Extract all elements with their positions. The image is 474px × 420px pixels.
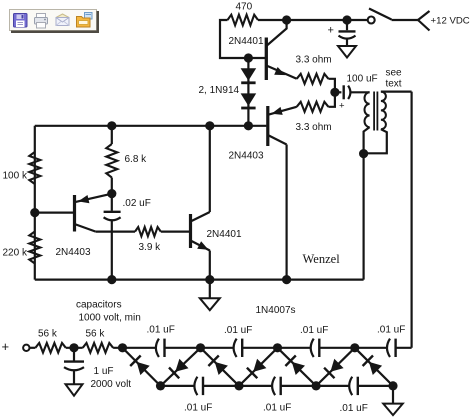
svg-text:470: 470 bbox=[236, 2, 253, 13]
capacitor C7 .01uF bbox=[387, 339, 390, 357]
diode D9 1N4007 bbox=[355, 348, 393, 386]
resistor R7 3.9k bbox=[135, 227, 161, 236]
wire: T1 secondary bottom return bbox=[364, 129, 387, 153]
transistor Q3 2N4403 (left) bbox=[73, 195, 76, 232]
transformer T1 core bbox=[373, 92, 375, 131]
svg-text:2, 1N914: 2, 1N914 bbox=[199, 85, 240, 96]
wire: Q4 collector to bias rail bbox=[209, 126, 211, 212]
svg-text:.01 uF: .01 uF bbox=[340, 403, 368, 414]
svg-text:capacitors: capacitors bbox=[76, 300, 122, 311]
wire: bias rail bbox=[35, 125, 267, 127]
wire: left branch rail bbox=[34, 126, 36, 280]
wire: R3 to C2 node bbox=[328, 92, 335, 107]
capacitor C4 .01uF bbox=[156, 339, 159, 357]
wire: diode string D1-D2 bbox=[247, 58, 249, 126]
capacitor C3 .02uF bbox=[111, 194, 113, 211]
svg-text:text: text bbox=[385, 78, 401, 89]
junction: 6.8k top bbox=[107, 121, 116, 130]
wire: multiplier top rail bbox=[113, 347, 412, 349]
junction: bottom rail node 3 bbox=[312, 381, 321, 390]
junction: Q3 base tap bbox=[30, 208, 39, 217]
svg-text:3.3 ohm: 3.3 ohm bbox=[296, 55, 332, 66]
diode D7 1N4007 bbox=[278, 348, 317, 386]
wire: R1 left lead down to Q1 base node bbox=[220, 20, 265, 58]
transistor Q1 2N4401 (oscillator top) bbox=[265, 38, 268, 81]
resistor R2 3.3 ohm (top) bbox=[297, 74, 329, 84]
wire: R8 to R9 bbox=[66, 347, 83, 349]
svg-text:100 k: 100 k bbox=[3, 171, 28, 182]
connector: +12 VDC input bbox=[418, 11, 430, 31]
junction: Q2 collector to common bbox=[282, 275, 291, 284]
svg-text:2000 volt: 2000 volt bbox=[91, 379, 132, 390]
svg-text:6.8 k: 6.8 k bbox=[125, 154, 148, 165]
junction: 1uF tap bbox=[69, 343, 78, 352]
mail button (envelope icon) bbox=[56, 14, 69, 26]
svg-text:3.9 k: 3.9 k bbox=[139, 242, 162, 253]
junction: T1 common bbox=[359, 149, 368, 158]
svg-text:3.3 ohm: 3.3 ohm bbox=[296, 122, 332, 133]
wire: common rail bbox=[35, 279, 364, 281]
wire: switch to +12V connector bbox=[392, 19, 419, 21]
diode D1 1N914 bbox=[241, 68, 257, 81]
svg-text:2N4403: 2N4403 bbox=[229, 151, 264, 162]
capacitor C5 .01uF bbox=[234, 339, 237, 357]
capacitor C10 .01uF bbox=[349, 377, 352, 395]
svg-text:+: + bbox=[339, 101, 345, 112]
svg-text:.01 uF: .01 uF bbox=[377, 325, 405, 336]
diode D6 1N4007 bbox=[239, 348, 278, 386]
transformer T1 secondary winding bbox=[381, 92, 386, 130]
resistor R1 470 bbox=[228, 15, 259, 26]
switch S1 terminal bbox=[368, 17, 375, 24]
wire: multiplier bottom rail bbox=[161, 385, 394, 387]
diode D8 1N4007 bbox=[316, 348, 355, 386]
wire: HV rail drop bbox=[411, 92, 413, 348]
resistor R5 6.8k bbox=[106, 144, 117, 178]
svg-text:56 k: 56 k bbox=[86, 329, 106, 340]
junction: C3 to common bbox=[107, 275, 116, 284]
resistor R4 100k bbox=[29, 152, 40, 184]
toolbar bbox=[10, 10, 100, 34]
svg-text:100 uF: 100 uF bbox=[347, 74, 378, 85]
wire: T1 secondary top to HV rail bbox=[381, 90, 412, 92]
ground: main common bbox=[209, 280, 211, 298]
junction: diode string bottom bbox=[244, 121, 253, 130]
ground: C12 bbox=[66, 384, 83, 396]
transistor Q4 2N4401 (bottom) bbox=[189, 214, 192, 248]
wire: Q3 collector to R7 bbox=[96, 231, 135, 233]
resistor R6 220k bbox=[29, 232, 40, 264]
resistor R8 56k bbox=[35, 343, 65, 353]
transistor Q2 2N4403 (driver) bbox=[266, 106, 269, 146]
svg-text:220 k: 220 k bbox=[3, 248, 28, 259]
print button (printer icon) bbox=[35, 14, 48, 29]
capacitor C9 .01uF bbox=[272, 377, 275, 395]
junction: Q4 collector tap bbox=[205, 121, 214, 130]
junction: top rail node 2 bbox=[196, 343, 205, 352]
wire: T1 primary bottom to common bbox=[364, 127, 370, 154]
capacitor C6 .01uF bbox=[311, 339, 314, 357]
wire: R5 leads bbox=[111, 126, 113, 194]
diode D2 1N914 bbox=[241, 93, 257, 106]
capacitor C12 1uF bbox=[73, 348, 75, 361]
svg-text:.01 uF: .01 uF bbox=[224, 325, 252, 336]
wire: top rail to switch bbox=[287, 19, 368, 21]
junction: top rail node 3 bbox=[273, 343, 282, 352]
svg-text:+: + bbox=[2, 339, 10, 354]
resistor R9 56k bbox=[83, 343, 113, 353]
junction: Q1 base bbox=[244, 53, 253, 62]
svg-text:2N4401: 2N4401 bbox=[229, 36, 264, 47]
junction: filter cap tap bbox=[342, 15, 351, 24]
svg-text:Wenzel: Wenzel bbox=[303, 252, 341, 266]
svg-text:1N4007s: 1N4007s bbox=[256, 305, 296, 316]
svg-text:+12 VDC: +12 VDC bbox=[431, 16, 470, 27]
switch S1 blade bbox=[369, 9, 392, 20]
svg-text:+: + bbox=[328, 25, 334, 37]
junction: C2 node bbox=[330, 88, 339, 97]
svg-text:.02 uF: .02 uF bbox=[123, 198, 151, 209]
svg-text:1000 volt, min: 1000 volt, min bbox=[79, 313, 141, 324]
svg-text:.01 uF: .01 uF bbox=[147, 325, 175, 336]
capacitor C8 .01uF bbox=[194, 377, 197, 395]
svg-text:56 k: 56 k bbox=[38, 329, 58, 340]
ground: multiplier output bbox=[392, 386, 394, 403]
diode D5 1N4007 bbox=[201, 348, 240, 386]
wire: R2 to C2 node bbox=[328, 79, 335, 93]
wire: R1 right lead to collector node bbox=[258, 19, 287, 21]
svg-text:.01 uF: .01 uF bbox=[300, 325, 328, 336]
transformer T1 primary winding bbox=[364, 92, 369, 127]
junction: top rail node 4 bbox=[350, 343, 359, 352]
wire: R7 to Q4 base bbox=[161, 231, 189, 233]
capacitor C2 100uF bbox=[335, 91, 342, 93]
wire: T1 common drop bbox=[363, 154, 365, 280]
wire: terminal to R8 bbox=[30, 347, 36, 349]
ground: C1 bbox=[338, 46, 356, 58]
junction: bottom rail node 2 bbox=[234, 381, 243, 390]
junction: Q3 emitter node bbox=[107, 189, 116, 198]
svg-text:2N4401: 2N4401 bbox=[207, 229, 242, 240]
svg-text:2N4403: 2N4403 bbox=[56, 247, 91, 258]
terminal: HV output bbox=[23, 345, 29, 351]
diode D3 1N4007 bbox=[123, 348, 161, 386]
svg-text:.01 uF: .01 uF bbox=[263, 403, 291, 414]
svg-text:see: see bbox=[385, 67, 402, 78]
junction: bottom rail node 1 bbox=[156, 381, 165, 390]
svg-text:.01 uF: .01 uF bbox=[184, 403, 212, 414]
capacitor C1 (12V filter) bbox=[346, 20, 348, 30]
junction: bottom rail node 4 bbox=[388, 381, 397, 390]
svg-text:1 uF: 1 uF bbox=[94, 366, 114, 377]
export button (folder icon) bbox=[77, 13, 93, 28]
diode D4 1N4007 bbox=[161, 348, 201, 386]
junction: R9 to multiplier bbox=[118, 343, 127, 352]
resistor R3 3.3 ohm (bottom) bbox=[297, 102, 329, 112]
wire: Q2 collector drop bbox=[286, 145, 288, 280]
wire: Q4 emitter to common bbox=[209, 251, 211, 280]
junction: Q4 emitter ground tap bbox=[205, 275, 214, 284]
save button (floppy disk icon) bbox=[14, 14, 28, 28]
junction: Q1 collector node bbox=[282, 15, 291, 24]
wire: Q3 base bbox=[35, 212, 73, 214]
